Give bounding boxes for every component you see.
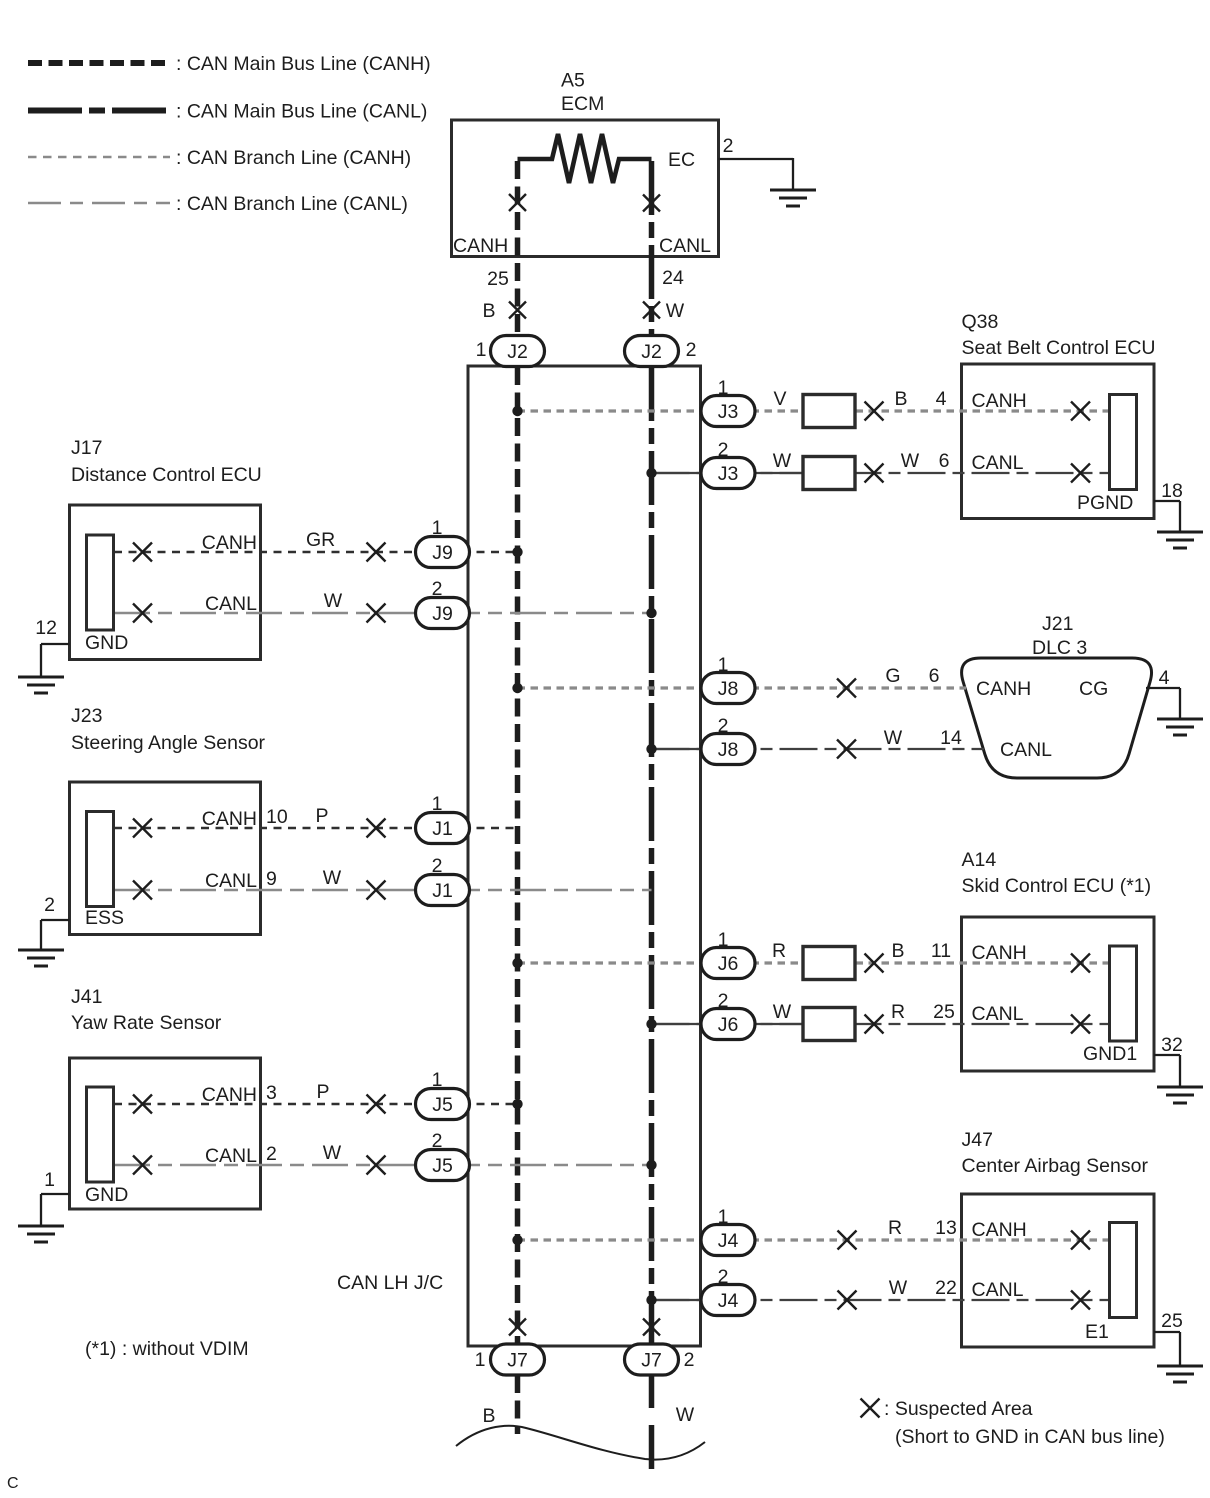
- svg-text:1: 1: [432, 1069, 443, 1091]
- svg-text:13: 13: [935, 1217, 957, 1239]
- svg-text:6: 6: [939, 450, 950, 472]
- svg-text:GND: GND: [85, 632, 128, 654]
- svg-text:1: 1: [475, 1349, 486, 1371]
- wire CANL main bus (below J7): [649, 1375, 655, 1469]
- svg-text:2: 2: [718, 439, 729, 461]
- wire CANL stub J3-2 (oval to noise filter): [754, 472, 803, 474]
- X suspected area (A14 CANL inner): [1071, 1015, 1090, 1034]
- X suspected area (A14 CANH inner): [1071, 954, 1090, 973]
- ground (J17): [18, 677, 64, 693]
- X suspected area (ECM CANH): [509, 194, 526, 211]
- X suspected area (above J2 CANH): [509, 302, 526, 319]
- svg-text:CANL: CANL: [205, 1145, 257, 1167]
- ground (J23): [18, 950, 64, 966]
- X suspected area (Q38 CANH outer): [865, 402, 884, 421]
- svg-text:6: 6: [929, 665, 940, 687]
- svg-text:J2: J2: [507, 341, 528, 363]
- wire CANH branch J3-1 to Q38: [518, 409, 1110, 412]
- svg-text:J5: J5: [432, 1155, 453, 1177]
- wire CANH main bus (J/C vertical): [515, 367, 521, 1344]
- connector oval J9-1: [416, 537, 470, 568]
- X suspected area (J9 row CANL mid): [367, 604, 386, 623]
- connector oval J8-1: [701, 673, 755, 704]
- svg-text:1: 1: [718, 1206, 729, 1228]
- wire CANL branch J6-2 to A14: [652, 1023, 1110, 1025]
- wire CANL branch J23 to J1-2: [114, 889, 652, 892]
- svg-text:CANL: CANL: [972, 1279, 1024, 1301]
- svg-text:25: 25: [487, 268, 509, 290]
- svg-text:EC: EC: [668, 149, 695, 171]
- svg-text:W: W: [901, 450, 920, 472]
- svg-text:12: 12: [35, 617, 57, 639]
- connector oval J4-2: [701, 1285, 755, 1316]
- connector oval J7-1: [491, 1344, 545, 1375]
- legend line: CAN Main Bus Line (CANH) sample: [28, 60, 170, 66]
- wire CANL stub J6-2 (oval to noise filter): [754, 1023, 803, 1025]
- legend line: CAN Branch Line (CANH) sample: [28, 156, 170, 159]
- noise filter rect (A14 CANH): [803, 947, 855, 980]
- svg-text:CANL: CANL: [972, 452, 1024, 474]
- node CANL junction at y=749: [646, 744, 656, 754]
- X suspected area (J47 CANL inner): [1071, 1291, 1090, 1310]
- svg-text:B: B: [482, 1405, 495, 1427]
- X suspected area (above J2 CANL): [643, 302, 660, 319]
- svg-text:CANL: CANL: [1000, 739, 1052, 761]
- svg-text:A5: A5: [561, 70, 585, 92]
- connector oval J5-1: [416, 1089, 470, 1120]
- svg-text:CAN LH J/C: CAN LH J/C: [337, 1272, 443, 1294]
- svg-text:2: 2: [432, 855, 443, 877]
- svg-text:CANH: CANH: [202, 808, 257, 830]
- wire CANL main bus (J/C vertical): [649, 367, 655, 1344]
- wire CANL branch J3-2 to Q38: [652, 472, 1110, 474]
- wire ground (A14 GND1): [1154, 1054, 1180, 1056]
- svg-text:1: 1: [476, 339, 487, 361]
- noise filter rect (Q38 CANL): [803, 457, 855, 490]
- svg-text:2: 2: [718, 990, 729, 1012]
- svg-text:W: W: [323, 867, 342, 889]
- X suspected area (J1 row CANL mid): [367, 881, 386, 900]
- X suspected area (J47 CANH outer): [838, 1231, 857, 1250]
- svg-text:J8: J8: [718, 678, 739, 700]
- svg-text:R: R: [891, 1001, 905, 1023]
- junction box CAN LH J/C: [468, 366, 701, 1346]
- svg-text:J9: J9: [432, 603, 453, 625]
- svg-text:W: W: [323, 1142, 342, 1164]
- svg-text:W: W: [324, 590, 343, 612]
- ECU J17 box: [70, 505, 261, 660]
- wire CANH main bus (below J7): [515, 1375, 521, 1434]
- wire CANL branch J41 to J5-2: [114, 1164, 652, 1167]
- svg-text:25: 25: [933, 1001, 955, 1023]
- wire ground (Q38 PGND): [1154, 500, 1180, 502]
- svg-text:1: 1: [432, 517, 443, 539]
- svg-text:J8: J8: [718, 739, 739, 761]
- X suspected area (J5 row CANH at connector): [133, 1095, 152, 1114]
- svg-text:Steering Angle Sensor: Steering Angle Sensor: [71, 732, 266, 754]
- svg-text:2: 2: [44, 894, 55, 916]
- svg-text:W: W: [889, 1277, 908, 1299]
- wire CANL branch J4-2 to J47: [652, 1299, 1110, 1301]
- svg-text:GND1: GND1: [1083, 1043, 1137, 1065]
- svg-text:B: B: [891, 940, 904, 962]
- svg-text:2: 2: [432, 1130, 443, 1152]
- svg-text:W: W: [884, 727, 903, 749]
- svg-text:Center Airbag Sensor: Center Airbag Sensor: [962, 1155, 1149, 1177]
- X suspected area (J/C bottom CANH): [509, 1319, 526, 1336]
- X suspected area (J5 row CANL at connector): [133, 1156, 152, 1175]
- svg-text:R: R: [888, 1217, 902, 1239]
- svg-text:1: 1: [432, 793, 443, 815]
- wire CANL stub J3-2 (dot to oval): [652, 472, 702, 474]
- X suspected area (J9 row CANH at connector): [133, 543, 152, 562]
- X suspected area (Q38 CANL inner): [1071, 464, 1090, 483]
- X suspected area (J5 row CANL mid): [367, 1156, 386, 1175]
- svg-text:C: C: [7, 1475, 19, 1492]
- svg-text:(*1) : without VDIM: (*1) : without VDIM: [85, 1338, 249, 1360]
- svg-text:V: V: [773, 388, 786, 410]
- node CANL junction at y=1165: [646, 1160, 656, 1170]
- ECU A5 ECM box: [452, 120, 719, 257]
- svg-text:: CAN Main Bus Line (CANH): : CAN Main Bus Line (CANH): [176, 53, 431, 75]
- ground (J47): [1157, 1366, 1203, 1382]
- svg-text:E1: E1: [1085, 1321, 1109, 1343]
- svg-text:1: 1: [718, 654, 729, 676]
- connector oval J3-2: [701, 458, 755, 489]
- svg-text:1: 1: [718, 377, 729, 399]
- svg-text:CANH: CANH: [972, 390, 1027, 412]
- svg-text:4: 4: [1159, 667, 1170, 689]
- wire CG to ground (J21): [1146, 687, 1180, 689]
- svg-text:CANH: CANH: [202, 532, 257, 554]
- wire EC to ground: [719, 158, 794, 160]
- node CANH junction at y=963: [512, 958, 522, 968]
- node CANH junction at y=1104: [512, 1099, 522, 1109]
- node CANL junction at y=613: [646, 608, 656, 618]
- X suspected area (A14 CANL outer): [865, 1015, 884, 1034]
- connector oval J4-1: [701, 1225, 755, 1256]
- wire CANH branch J17 to J9-1: [114, 551, 518, 553]
- connector pins rect (Q38): [1110, 395, 1137, 490]
- svg-text:J7: J7: [507, 1350, 528, 1372]
- ground (J21): [1157, 719, 1203, 735]
- connector oval J2-1: [491, 336, 545, 367]
- connector oval J8-2: [701, 734, 755, 765]
- svg-text:2: 2: [686, 339, 697, 361]
- ECU A14 box: [962, 917, 1155, 1071]
- X suspected area (J5 row CANH mid): [367, 1095, 386, 1114]
- svg-text:Yaw Rate Sensor: Yaw Rate Sensor: [71, 1012, 222, 1034]
- svg-text:J4: J4: [718, 1290, 739, 1312]
- wire ground (J47 E1): [1154, 1331, 1180, 1333]
- resistor R (CAN terminating resistor inside ECM): [518, 134, 652, 183]
- svg-text:1: 1: [718, 929, 729, 951]
- svg-text:W: W: [773, 450, 792, 472]
- svg-text:J4: J4: [718, 1230, 739, 1252]
- wire ground (J41): [41, 1193, 70, 1195]
- svg-text:(Short to GND in CAN bus line): (Short to GND in CAN bus line): [895, 1426, 1165, 1448]
- svg-text:Skid Control ECU (*1): Skid Control ECU (*1): [962, 875, 1152, 897]
- node CANL junction at y=1300: [646, 1295, 656, 1305]
- ECU Q38 box: [962, 364, 1155, 519]
- node CANH junction at y=552: [512, 547, 522, 557]
- wire CANH branch J6-1 to A14: [518, 961, 1110, 964]
- X suspected area (Q38 CANL outer): [865, 464, 884, 483]
- ECU J23 box: [70, 782, 261, 935]
- connector J21 DLC3 trapezoid: [962, 658, 1152, 778]
- svg-text:2: 2: [266, 1143, 277, 1165]
- wire ground (J17): [41, 643, 70, 645]
- svg-text:J7: J7: [641, 1350, 662, 1372]
- X suspected area (J21 CANH): [837, 679, 856, 698]
- wire CANH branch J4-1 to J47: [518, 1238, 1110, 1241]
- svg-text:J1: J1: [432, 880, 453, 902]
- svg-text:9: 9: [266, 868, 277, 890]
- svg-text:J6: J6: [718, 953, 739, 975]
- X suspected area (ECM CANL): [643, 195, 660, 212]
- X suspected area (J9 row CANH mid): [367, 543, 386, 562]
- svg-text:CANH: CANH: [453, 235, 508, 257]
- connector oval J9-2: [416, 598, 470, 629]
- svg-text:Q38: Q38: [962, 311, 999, 333]
- connector oval J1-2: [416, 875, 470, 906]
- noise filter rect (A14 CANL): [803, 1008, 855, 1041]
- svg-text:P: P: [315, 805, 328, 827]
- connector oval J5-2: [416, 1150, 470, 1181]
- svg-text:Distance Control ECU: Distance Control ECU: [71, 464, 262, 486]
- ECU J47 box: [962, 1194, 1155, 1347]
- legend line: CAN Branch Line (CANL) sample: [28, 202, 170, 205]
- X suspected area (legend): [861, 1399, 880, 1418]
- node CANH junction at y=411: [512, 406, 522, 416]
- X suspected area (A14 CANH outer): [865, 954, 884, 973]
- wire CANL stub J6-2 (dot to oval): [652, 1023, 702, 1025]
- svg-text:10: 10: [266, 806, 288, 828]
- svg-text:: CAN Branch Line (CANL): : CAN Branch Line (CANL): [176, 193, 408, 215]
- wire CANH branch J8-1 to DLC3: [518, 686, 967, 689]
- svg-text:R: R: [772, 940, 786, 962]
- node CANH junction at y=1240: [512, 1235, 522, 1245]
- X suspected area (J47 CANL outer): [838, 1291, 857, 1310]
- svg-text:CANH: CANH: [972, 942, 1027, 964]
- svg-text:1: 1: [44, 1169, 55, 1191]
- connector oval J6-2: [701, 1009, 755, 1040]
- noise filter rect (Q38 CANH): [803, 395, 855, 428]
- wire CANL branch J17 to J9-2: [114, 612, 652, 615]
- svg-text:J47: J47: [962, 1129, 993, 1151]
- svg-text:J6: J6: [718, 1014, 739, 1036]
- connector oval J3-1: [701, 396, 755, 427]
- svg-text:J21: J21: [1042, 613, 1073, 635]
- wire ground (J23): [41, 919, 70, 921]
- connector pins rect (J41): [87, 1087, 114, 1182]
- wire CANL branch J8-2 to DLC3: [652, 748, 985, 750]
- svg-text:CANH: CANH: [202, 1084, 257, 1106]
- svg-text:W: W: [676, 1404, 695, 1426]
- wire CANL stub J4-2 (dot to oval): [652, 1299, 702, 1301]
- ground (J41): [18, 1226, 64, 1242]
- svg-text:J9: J9: [432, 542, 453, 564]
- svg-text:W: W: [773, 1001, 792, 1023]
- X suspected area (J47 CANH inner): [1071, 1231, 1090, 1250]
- svg-text:11: 11: [931, 940, 951, 962]
- X suspected area (J1 row CANH mid): [367, 819, 386, 838]
- connector oval J2-2: [625, 336, 679, 367]
- svg-text:J41: J41: [71, 986, 102, 1008]
- svg-text:J5: J5: [432, 1094, 453, 1116]
- connector oval J6-1: [701, 948, 755, 979]
- svg-text:22: 22: [935, 1277, 957, 1299]
- svg-text:32: 32: [1161, 1034, 1183, 1056]
- wire CANH branch J23 to J1-1: [114, 827, 518, 829]
- svg-text:J17: J17: [71, 437, 102, 459]
- svg-text:PGND: PGND: [1077, 492, 1133, 514]
- node CANH junction at y=688: [512, 683, 522, 693]
- connector pins rect (J47): [1110, 1223, 1137, 1318]
- svg-text:J1: J1: [432, 818, 453, 840]
- svg-text:B: B: [894, 388, 907, 410]
- node CANL junction at y=473: [646, 468, 656, 478]
- svg-text:2: 2: [723, 135, 734, 157]
- svg-text:CANL: CANL: [205, 593, 257, 615]
- X suspected area (J1 row CANH at connector): [133, 819, 152, 838]
- ECU J41 box: [70, 1058, 261, 1209]
- svg-text:J3: J3: [718, 401, 739, 423]
- wire CANL stub J8-2 (dot to oval): [652, 748, 702, 750]
- svg-text:2: 2: [684, 1349, 695, 1371]
- wire CANH main bus (inside ECM down to J2): [515, 161, 521, 336]
- X suspected area (J21 CANL): [837, 740, 856, 759]
- svg-text:DLC 3: DLC 3: [1032, 637, 1087, 659]
- svg-text:G: G: [885, 665, 900, 687]
- wire CANH branch J41 to J5-1: [114, 1103, 518, 1105]
- connector oval J7-2: [625, 1344, 679, 1375]
- connector pins rect (A14): [1110, 946, 1137, 1041]
- svg-text:CG: CG: [1079, 678, 1108, 700]
- ground (A14): [1157, 1087, 1203, 1103]
- svg-text:J23: J23: [71, 705, 102, 727]
- svg-text:A14: A14: [962, 849, 997, 871]
- svg-text:: Suspected Area: : Suspected Area: [884, 1398, 1033, 1420]
- svg-text:24: 24: [662, 267, 684, 289]
- svg-text:W: W: [666, 300, 685, 322]
- svg-text:P: P: [316, 1081, 329, 1103]
- svg-text:J3: J3: [718, 463, 739, 485]
- svg-text:CANH: CANH: [972, 1219, 1027, 1241]
- svg-text:3: 3: [266, 1082, 277, 1104]
- X suspected area (J1 row CANL at connector): [133, 881, 152, 900]
- wire CANL main bus (inside ECM down to J2): [649, 161, 655, 336]
- connector pins rect (J23): [87, 812, 114, 907]
- svg-text:ESS: ESS: [85, 907, 124, 929]
- node CANL junction at y=1024: [646, 1019, 656, 1029]
- X suspected area (Q38 CANH inner): [1071, 402, 1090, 421]
- svg-text:GR: GR: [306, 529, 335, 551]
- svg-text:CANL: CANL: [972, 1003, 1024, 1025]
- svg-text:: CAN Main Bus Line (CANL): : CAN Main Bus Line (CANL): [176, 101, 427, 123]
- ground (Q38): [1157, 532, 1203, 548]
- svg-text:2: 2: [718, 1266, 729, 1288]
- svg-text:ECM: ECM: [561, 93, 604, 115]
- svg-text:2: 2: [432, 578, 443, 600]
- ground (ECM EC): [770, 190, 816, 206]
- X suspected area (J9 row CANL at connector): [133, 604, 152, 623]
- legend line: CAN Main Bus Line (CANL) sample: [28, 108, 170, 114]
- svg-text:B: B: [482, 300, 495, 322]
- connector oval J1-1: [416, 813, 470, 844]
- svg-text:CANL: CANL: [205, 870, 257, 892]
- svg-text:14: 14: [940, 727, 962, 749]
- svg-text:Seat Belt Control ECU: Seat Belt Control ECU: [962, 337, 1156, 359]
- svg-text:CANH: CANH: [976, 678, 1031, 700]
- wire continuation wave (harness break): [456, 1426, 705, 1460]
- connector pins rect (J17): [87, 535, 114, 630]
- X suspected area (J/C bottom CANL): [643, 1319, 660, 1336]
- svg-text:4: 4: [936, 388, 947, 410]
- svg-text:2: 2: [718, 715, 729, 737]
- svg-text:GND: GND: [85, 1184, 128, 1206]
- svg-text:25: 25: [1161, 1310, 1183, 1332]
- svg-text:J2: J2: [641, 341, 662, 363]
- svg-text:: CAN Branch Line (CANH): : CAN Branch Line (CANH): [176, 147, 411, 169]
- svg-text:CANL: CANL: [659, 235, 711, 257]
- svg-text:18: 18: [1161, 480, 1183, 502]
